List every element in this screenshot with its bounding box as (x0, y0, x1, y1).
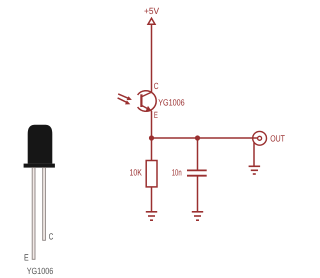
wire V+ to collector (151, 24, 153, 92)
ground under capacitor (192, 212, 203, 220)
phototransistor YG1006 body arc (138, 91, 157, 112)
svg-text:E: E (24, 252, 29, 262)
package body (black dome) (28, 125, 53, 164)
phototransistor base bar (140, 94, 142, 107)
svg-text:YG1006: YG1006 (158, 97, 185, 107)
wire resistor to ground (151, 187, 153, 212)
svg-text:10K: 10K (130, 168, 142, 178)
phototransistor emitter arrowhead (146, 106, 152, 111)
svg-text:10n: 10n (172, 168, 182, 178)
connector OUT outer ring (253, 131, 267, 145)
wire capacitor to ground (197, 176, 199, 212)
wire node B to capacitor (197, 138, 199, 170)
package leg E (left) (32, 168, 35, 260)
light arrow 1 (118, 94, 132, 100)
horizontal wire node A to OUT (152, 137, 258, 139)
resistor R (10K) (146, 161, 157, 187)
package leg C (right) (43, 168, 46, 241)
svg-text:+5V: +5V (144, 6, 159, 16)
svg-text:E: E (154, 110, 158, 120)
phototransistor emitter stroke (142, 105, 152, 111)
package flange (24, 164, 55, 168)
svg-text:YG1006: YG1006 (27, 266, 54, 276)
ground under OUT (249, 166, 261, 174)
wire emitter to node A (151, 111, 153, 161)
power symbol +5V (open up-arrow) (148, 18, 155, 24)
svg-text:C: C (154, 81, 159, 91)
svg-text:C: C (49, 232, 54, 242)
capacitor C (10n) plates (187, 170, 207, 175)
connector OUT center pin (258, 136, 262, 140)
svg-text:OUT: OUT (270, 134, 285, 144)
wire OUT to ground (253, 143, 255, 167)
ground under resistor (146, 212, 157, 220)
light arrow 2 (118, 98, 131, 105)
junction node B (195, 135, 200, 140)
junction node A (149, 135, 154, 140)
phototransistor collector stroke (142, 92, 152, 97)
